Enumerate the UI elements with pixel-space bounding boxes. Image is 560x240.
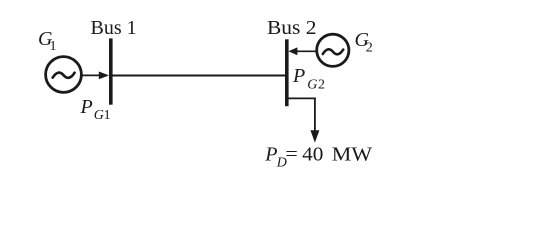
svg-text:Bus 1: Bus 1	[91, 18, 137, 39]
svg-text:2: 2	[318, 77, 325, 92]
generator G2 circle	[317, 34, 349, 66]
load arrowhead (down)	[310, 130, 319, 142]
bus Bus 1 (vertical bar)	[109, 38, 113, 104]
svg-text:G: G	[94, 108, 104, 123]
load tap wire from Bus 2 (horizontal)	[288, 97, 316, 99]
wire from G2 to Bus 2	[297, 50, 317, 52]
svg-text:P: P	[264, 144, 277, 166]
svg-text:40: 40	[302, 145, 323, 166]
svg-text:=: =	[285, 145, 297, 166]
wire from G1 to Bus 1	[82, 74, 101, 76]
svg-text:Bus 2: Bus 2	[267, 18, 317, 39]
svg-text:G: G	[307, 77, 317, 92]
svg-text:2: 2	[366, 40, 373, 55]
svg-text:P: P	[80, 96, 93, 118]
load feeder wire (vertical)	[314, 98, 316, 132]
generator G1 sine symbol	[53, 73, 75, 78]
arrowhead into Bus 2 (G2 injection)	[288, 47, 297, 55]
transmission line Bus 1 to Bus 2	[112, 75, 286, 77]
svg-text:P: P	[292, 65, 305, 87]
svg-text:1: 1	[104, 108, 111, 123]
bus Bus 2 (vertical bar)	[285, 39, 289, 106]
generator G2 sine symbol	[323, 49, 343, 54]
generator G1 circle	[46, 57, 82, 93]
arrowhead into Bus 1 (P_G1 injection)	[99, 72, 109, 80]
svg-text:1: 1	[50, 39, 57, 54]
svg-text:MW: MW	[332, 145, 373, 166]
